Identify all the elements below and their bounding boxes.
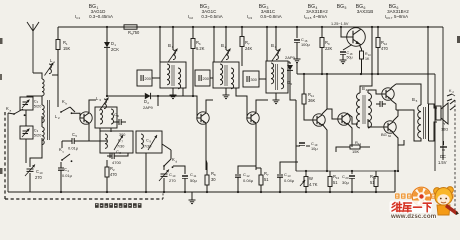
- diode D3 2AP9: [287, 62, 293, 86]
- IF transformer B3 box: [266, 61, 288, 93]
- svg-text:4700: 4700: [112, 160, 122, 165]
- switch KC: [59, 147, 72, 162]
- svg-text:5: 5: [345, 6, 347, 10]
- B2 core: [225, 65, 227, 86]
- svg-text:DC: DC: [440, 154, 446, 159]
- wire dashed band-section boundary bottom: [5, 198, 163, 200]
- wire BG6 emitter join: [393, 110, 404, 145]
- capacitor C12 0.04u: [235, 170, 254, 192]
- tunable core B1: [169, 40, 178, 62]
- tunable core B3: [272, 40, 281, 62]
- svg-text:0.3~0.45mA: 0.3~0.45mA: [89, 14, 113, 19]
- svg-text:200: 200: [203, 77, 209, 81]
- resistor R12 470: [376, 26, 389, 58]
- coil L2 tertiary: [42, 116, 44, 150]
- svg-text:15K: 15K: [352, 149, 359, 154]
- coil L2 primary: [42, 79, 44, 96]
- svg-text:0.3~0.5mA: 0.3~0.5mA: [201, 14, 222, 19]
- earphone jack dashed: [450, 100, 455, 213]
- svg-text:C3: C3: [248, 16, 252, 20]
- resistor R12b 15K: [340, 140, 370, 154]
- wire C13 top link: [280, 162, 298, 170]
- trimmer capacitor C2 5/20: [20, 97, 42, 110]
- capacitor 300 of B3: [243, 71, 259, 87]
- svg-text:51: 51: [264, 177, 269, 182]
- earphone jack K2: [447, 89, 455, 101]
- coil L2 secondary: [42, 96, 60, 123]
- wire feedback left: [336, 147, 340, 152]
- diode D1 2CK: [104, 40, 119, 60]
- transistor BG4a: [313, 114, 325, 126]
- svg-text:Y: Y: [443, 121, 446, 126]
- padder box C9: [136, 131, 162, 153]
- wire C3 down to gang: [25, 139, 27, 163]
- wire R11 to BG4a base: [304, 108, 313, 120]
- svg-text:12: 12: [358, 142, 362, 146]
- label BG3 type/current: [247, 4, 282, 20]
- wire right edge drop from bus: [442, 27, 444, 152]
- transistor BG3: [247, 112, 259, 124]
- wire C8 to padder: [120, 153, 128, 156]
- B1 core: [172, 65, 174, 86]
- variable capacitor C10a 270: [25, 150, 43, 192]
- resistor R6 6.2K: [191, 26, 205, 60]
- svg-text:B: B: [412, 97, 415, 102]
- capacitor base bypass: [376, 101, 386, 107]
- coil L1 adjustable: [45, 58, 56, 76]
- wire C12 top: [238, 166, 256, 170]
- wire bus to B3 primary: [266, 26, 268, 61]
- wire R6 down to AGC: [192, 60, 194, 96]
- B1 primary winding: [167, 64, 170, 85]
- tunable core B2: [222, 40, 231, 62]
- wire B4 primary top to rail: [360, 26, 373, 93]
- resistor R14 51: [370, 171, 378, 192]
- switch KD: [163, 157, 177, 170]
- resistor R8 30: [205, 168, 216, 192]
- svg-text:1.5V: 1.5V: [438, 160, 447, 165]
- wire B3 cap link: [259, 78, 266, 80]
- label B4: [362, 86, 368, 92]
- wire lower rail y171: [296, 170, 399, 172]
- label B1: [168, 43, 174, 49]
- junction dots on ground bus: [60, 191, 377, 193]
- label 2AP9 detector: [285, 55, 296, 60]
- label BG2 type/current: [188, 4, 223, 20]
- diode D2 2AP9: [140, 93, 158, 110]
- svg-text:50μ: 50μ: [190, 178, 197, 183]
- wire B1 secondary to BG2 base: [183, 88, 197, 118]
- wire BG6a emitter: [391, 100, 396, 110]
- wire padder bottoms to bus: [110, 153, 146, 192]
- capacitor C8 4700: [107, 149, 122, 165]
- svg-text:3AX31B: 3AX31B: [357, 9, 374, 14]
- wire bus to D1: [106, 26, 108, 40]
- wire B4 sec bottom to BG6b base: [368, 119, 384, 127]
- transistor BG5: [347, 28, 366, 47]
- wire BG4b collector to B4: [347, 113, 358, 124]
- label B3: [271, 43, 277, 49]
- svg-text:0.01μ: 0.01μ: [68, 146, 79, 151]
- wire C2 down: [25, 110, 27, 126]
- B3 primary winding: [271, 63, 274, 84]
- svg-text:4.7K: 4.7K: [309, 182, 318, 187]
- ground mid: [189, 192, 196, 204]
- svg-text:1.25~1.5V: 1.25~1.5V: [331, 22, 349, 26]
- wire BG1 collector up: [89, 100, 96, 112]
- svg-text:B: B: [221, 43, 224, 48]
- wire bus to B1: [172, 26, 174, 40]
- wire bottom ground bus: [8, 191, 395, 193]
- speaker Y: [436, 103, 448, 132]
- wire B5 top feed: [427, 26, 429, 104]
- capacitor C6: [113, 112, 126, 125]
- resistor R13 51: [328, 171, 340, 192]
- trimmer capacitor C3 5/20: [20, 126, 42, 139]
- wire mid rail right drop: [434, 74, 436, 171]
- coil L3 adjustable: [96, 96, 109, 111]
- wire bus to B1 primary: [159, 26, 161, 62]
- wire BG1 emitter to R2: [89, 140, 107, 142]
- wire C11 top: [173, 166, 185, 170]
- svg-text:2CK: 2CK: [111, 47, 119, 52]
- B4 primary winding: [357, 93, 361, 128]
- svg-text:300: 300: [251, 78, 257, 82]
- transistor BG6a: [382, 88, 394, 100]
- label 1.25~1.5V: [331, 22, 349, 26]
- svg-text:15K: 15K: [63, 46, 71, 51]
- padder coil: [105, 134, 107, 148]
- svg-text:5~8mA: 5~8mA: [394, 14, 408, 19]
- wire R2 to bus: [106, 184, 108, 192]
- svg-text:B: B: [271, 43, 274, 48]
- wire BG4a collector up: [322, 73, 328, 114]
- wire bus end join: [394, 170, 396, 192]
- wire bus to B2 primary: [213, 26, 215, 62]
- wire B3 top tap to diode: [288, 61, 290, 63]
- oscillator coil right winding: [111, 109, 114, 124]
- B4 secondary winding: [368, 93, 372, 128]
- transistor BG1: [80, 112, 92, 124]
- svg-text:6.2K: 6.2K: [196, 46, 205, 51]
- wire R1 branch down to switch KB: [57, 62, 59, 107]
- wire dashed boundary right stub: [162, 193, 164, 199]
- wire C5 left to KC: [61, 141, 63, 148]
- scan artifact left 1: [0, 38, 3, 44]
- scan artifact left 3: [0, 168, 3, 174]
- wire top supply bus: [58, 26, 443, 28]
- capacitor C20 30u: [342, 171, 355, 192]
- B5 primary winding: [418, 105, 421, 138]
- wire R8 top: [206, 160, 207, 168]
- svg-text:51: 51: [370, 180, 375, 185]
- resistor R13a 51: [259, 168, 269, 192]
- wire BG3 collector: [256, 100, 268, 112]
- wire left rail: [7, 113, 9, 192]
- battery DC 1.5V: [438, 141, 447, 165]
- oscillator transformer box: [95, 107, 117, 128]
- resistor R11 36K: [302, 90, 316, 108]
- wire BG2 emitter: [205, 124, 207, 170]
- wire B5 collector taps: [396, 84, 421, 141]
- svg-text:62: 62: [388, 134, 392, 138]
- wire R7 to B2: [241, 56, 243, 66]
- B1 secondary winding: [178, 68, 181, 89]
- svg-text:7/30: 7/30: [117, 145, 124, 149]
- capacitor 200 of B2: [195, 70, 210, 86]
- svg-text:1K: 1K: [365, 57, 370, 61]
- svg-text:51: 51: [333, 180, 338, 185]
- wire BG6a collector: [391, 84, 396, 88]
- svg-text:750: 750: [133, 30, 141, 35]
- transistor BG4b: [338, 113, 350, 125]
- volume pot W 4.7K: [300, 171, 318, 192]
- resistor R10 1K: [360, 45, 372, 74]
- B2 primary winding: [220, 64, 223, 85]
- B5 core: [423, 107, 425, 139]
- wire rail to R11: [303, 73, 305, 90]
- label B5: [412, 97, 418, 103]
- ground under B3: [273, 93, 280, 104]
- wire C16 branch to rail: [296, 62, 298, 74]
- wire BG4a to BG4b base: [327, 109, 338, 119]
- svg-text:0.04μ: 0.04μ: [243, 178, 254, 183]
- resistor R2 470: [105, 160, 118, 184]
- wire primary bottom to C2: [27, 96, 42, 97]
- wire detector out: [290, 80, 296, 100]
- label BG5: [337, 4, 347, 10]
- watermark url: [390, 213, 437, 220]
- wire bus to BG5 base: [340, 26, 347, 37]
- switch KA: [6, 106, 25, 116]
- wire bus to B3: [275, 26, 277, 40]
- wire osc box to lower box: [100, 128, 111, 132]
- label B2: [221, 43, 227, 49]
- wire BG6b emitter down: [397, 145, 399, 171]
- svg-text:30: 30: [211, 177, 216, 182]
- padder coil 2: [141, 134, 143, 148]
- capacitor C19 10u: [296, 141, 318, 151]
- wire B5 secondary to speaker: [429, 104, 438, 141]
- padder box C7: [100, 131, 133, 153]
- wire KA to C2 chain: [25, 114, 26, 116]
- svg-text:100μ: 100μ: [301, 42, 310, 47]
- label BG6b: [381, 132, 392, 138]
- core of antenna transformer: [48, 100, 50, 140]
- B2 secondary winding: [231, 68, 234, 89]
- antenna: [27, 22, 39, 73]
- svg-text:470: 470: [110, 172, 118, 177]
- resistor R5 750: [124, 25, 140, 36]
- svg-text:BG: BG: [337, 4, 344, 10]
- svg-text:5/20: 5/20: [34, 104, 42, 109]
- svg-text:30μ: 30μ: [342, 180, 349, 185]
- wire R12 down: [377, 58, 379, 74]
- capacitor C11 50u: [182, 170, 197, 192]
- wire BG2 collector: [206, 100, 213, 112]
- svg-text:B: B: [362, 86, 365, 91]
- svg-text:C4.5: C4.5: [305, 16, 312, 20]
- wire KD up: [162, 144, 171, 159]
- svg-text:C6.7: C6.7: [386, 16, 393, 20]
- resistor R1 15K: [56, 27, 71, 62]
- caption text (CJK as blocks): [95, 203, 142, 208]
- svg-text:24K: 24K: [245, 46, 253, 51]
- svg-text:10μ: 10μ: [311, 146, 318, 151]
- capacitor C18 50u: [340, 45, 353, 64]
- wire BG1 emitter down: [88, 124, 90, 141]
- svg-text:B: B: [168, 43, 171, 48]
- wire B2 secondary to BG3 base: [236, 88, 247, 118]
- svg-text:50μ: 50μ: [347, 56, 353, 60]
- wire volume top: [305, 170, 307, 172]
- svg-text:C2: C2: [189, 16, 193, 20]
- wire BG4a emitter down: [322, 124, 327, 171]
- IF transformer B1 box: [160, 62, 186, 88]
- svg-text:22K: 22K: [325, 46, 333, 51]
- B3 core: [276, 64, 278, 90]
- padder trimmer arrow 2: [148, 135, 157, 150]
- wire AGC down from D2 node: [157, 95, 159, 106]
- switch KB: [60, 99, 75, 114]
- svg-text:200: 200: [145, 77, 151, 81]
- wire B2 cap link: [210, 77, 213, 79]
- wire AGC to R6 foot: [158, 95, 194, 97]
- resistor R9 22K: [320, 26, 333, 58]
- wire AGC line: [107, 95, 140, 97]
- svg-text:470: 470: [381, 46, 389, 51]
- wire KB to BG1 base: [72, 113, 81, 118]
- wire dashed band-section boundary left: [4, 112, 6, 199]
- wire BG4b emitter: [347, 123, 352, 147]
- svg-text:270: 270: [169, 178, 176, 183]
- transistor BG6b: [384, 121, 396, 133]
- capacitor C16 100u: [294, 26, 310, 63]
- wire B4 sec top to BG6a base: [368, 90, 382, 94]
- capacitor C13 0.04u: [277, 170, 295, 192]
- svg-text:4~8mA: 4~8mA: [313, 14, 327, 19]
- svg-text:0.5~0.8mA: 0.5~0.8mA: [260, 14, 281, 19]
- svg-text:16Ω: 16Ω: [441, 128, 448, 132]
- wire D1 down to oscillator: [106, 60, 108, 97]
- wire antenna to coil: [33, 73, 42, 79]
- wire BG2 emitter to R8: [205, 124, 207, 168]
- svg-text:0.01μ: 0.01μ: [62, 173, 72, 178]
- variable capacitor C10b 270: [159, 170, 176, 193]
- capacitor 200 of B1: [137, 70, 152, 86]
- svg-text:5/20: 5/20: [34, 133, 42, 138]
- scan artifact right: [457, 36, 460, 43]
- padder trimmer arrow: [114, 135, 123, 150]
- label BG4 type/current: [304, 4, 329, 20]
- svg-text:270: 270: [35, 175, 43, 180]
- wire L1 to R1 branch: [52, 74, 58, 76]
- wire right vertical x443 bottom: [442, 152, 444, 160]
- svg-text:2AP9: 2AP9: [143, 105, 154, 110]
- svg-text:www.dzsc.com: www.dzsc.com: [390, 213, 437, 220]
- resistor R7 24K: [240, 26, 253, 56]
- wire mid rail y74: [297, 73, 435, 75]
- scan artifact left 2: [0, 74, 2, 80]
- transistor BG2: [197, 112, 209, 124]
- wire BG3 emitter: [255, 124, 257, 170]
- svg-text:36K: 36K: [308, 98, 316, 103]
- ground under B1: [170, 88, 177, 99]
- capacitor C4 0.01u: [58, 162, 72, 192]
- wire BG6b collector: [393, 110, 398, 121]
- wire R9 down: [321, 58, 323, 74]
- wire BG3 emitter join: [256, 124, 261, 168]
- svg-text:W: W: [309, 176, 313, 181]
- B3 secondary winding: [281, 68, 284, 89]
- wire B1 cap link: [152, 77, 160, 79]
- wire detector to volume: [295, 100, 297, 171]
- oscillator coil left winding: [100, 109, 103, 124]
- watermark mascots: [395, 187, 459, 215]
- ground under B2: [223, 88, 230, 99]
- B4 core: [363, 95, 365, 124]
- capacitor C5 0.01u: [62, 132, 89, 151]
- B5 secondary line: [428, 104, 430, 141]
- svg-text:0.04μ: 0.04μ: [284, 178, 295, 183]
- svg-text:BG: BG: [381, 132, 387, 137]
- label BG1 type/current: [75, 4, 113, 20]
- wire bus to B2: [225, 26, 227, 40]
- label BG6a type: [356, 4, 373, 14]
- watermark text weiku (vector glyphs): [390, 201, 432, 214]
- IF transformer B2 box: [213, 62, 239, 88]
- label BG6 type/current: [385, 4, 410, 20]
- svg-text:C1: C1: [76, 16, 80, 20]
